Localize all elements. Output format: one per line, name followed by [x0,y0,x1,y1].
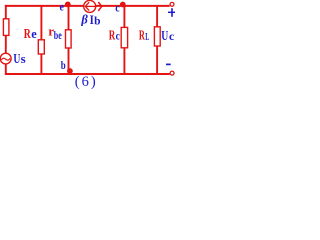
svg-text:R: R [24,26,31,41]
caption (6) [75,74,98,90]
resistor Re box [38,40,44,54]
label Rc [109,27,121,42]
svg-text:(6): (6) [75,74,98,90]
svg-text:U: U [161,29,168,44]
svg-text:b: b [94,16,100,28]
source Us (sine source circle) [0,53,11,64]
wire Re vertical bottom [40,54,42,75]
wire RL vertical bottom [156,46,158,75]
resistor R1 (unlabeled source resistor) [3,19,8,36]
svg-text:R: R [109,27,116,42]
wire RL vertical top [156,5,158,27]
resistor Rc box [121,27,127,47]
label RL [139,28,149,43]
label node b [61,60,66,72]
label Re [24,26,37,41]
wire rbe vertical top [68,5,70,30]
wire top rail right segment [96,5,170,7]
wire Rc vertical bottom [123,48,125,75]
wire rbe vertical bottom [68,48,70,74]
wire Re vertical top [40,5,42,40]
svg-text:R: R [139,28,145,43]
node b dot [67,68,73,74]
svg-text:b: b [61,60,66,72]
svg-text:be: be [54,28,62,42]
label plus [168,8,176,17]
node e dot [65,2,71,8]
resistor RL box [154,27,160,46]
wire left vertical top [5,5,7,19]
terminal bottom right [170,71,174,75]
label node e [60,2,64,14]
label node c [115,3,119,15]
svg-text:c: c [116,28,121,42]
wire bottom rail [5,73,170,75]
label beta Ib [80,12,100,28]
wire left vertical bottom [5,64,7,75]
svg-text:e: e [31,27,37,41]
svg-text:e: e [60,2,64,14]
arrowhead on wire from current source to node c [98,2,101,11]
label Us [13,52,25,67]
node c dot [120,2,126,8]
svg-text:β: β [80,13,88,27]
svg-text:L: L [145,32,149,43]
wire top rail left segment [5,5,84,7]
resistor rbe box [66,30,72,48]
svg-text:c: c [169,29,175,43]
svg-text:s: s [21,52,26,66]
current source beta-Ib circle [84,0,96,12]
terminal top right [170,2,174,6]
wire left vertical middle [5,35,7,53]
wire Rc vertical top [123,5,125,28]
label minus [166,63,171,65]
label Uc [161,29,175,44]
label rbe [48,24,62,42]
svg-text:c: c [115,3,119,15]
svg-text:U: U [13,52,20,67]
